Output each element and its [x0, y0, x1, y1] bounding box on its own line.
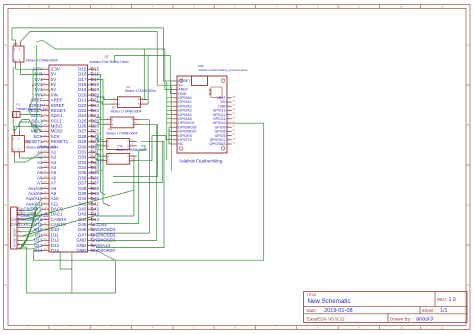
wire rail x36 [35, 45, 37, 120]
U2 pins [17, 210, 22, 249]
P2 pin names [112, 119, 133, 127]
svg-text:Adafruit FeatherWing: Adafruit FeatherWing [179, 158, 223, 163]
wire M32 GPIO10 to bottom loop [116, 123, 264, 260]
svg-text:Molex 172448-0004: Molex 172448-0004 [111, 110, 142, 114]
P9 pin numbers [103, 140, 133, 147]
wire bottom diagonal from U7 GND label [96, 250, 115, 260]
wire P6 top pins [15, 126, 42, 130]
connector M1 Molex 172448-0004 body [13, 46, 24, 62]
M32 left pin stubs [172, 81, 177, 144]
wire P6 top pin2 [20, 122, 42, 132]
U7 right pin numbers [90, 68, 93, 252]
connector P10 Molex 172448-0004 body [107, 153, 130, 164]
wire junction drop to P1 [30, 69, 33, 114]
M32 left pin names [178, 79, 196, 146]
M32 usb connector outline [192, 76, 208, 86]
svg-text:NC: NC [178, 142, 184, 146]
M32 right pin names [209, 96, 226, 146]
U7 left pin stubs [42, 69, 50, 251]
svg-text:Molex 172448-0004: Molex 172448-0004 [26, 59, 58, 63]
wire trunk T1 to M32 RESET [12, 28, 172, 81]
wire long diagonal across U7 [22, 190, 134, 220]
wire U7 to P4 pin1 [96, 97, 111, 100]
wire P4 right pin1 riser to trunk [144, 49, 147, 100]
svg-text:D14: D14 [51, 248, 60, 253]
svg-text:New Schematic: New Schematic [308, 298, 351, 305]
wire nested N4 from P9 to U7 bottom [96, 146, 145, 224]
wire nested N2 from P2 to U7 bottom [96, 124, 157, 240]
svg-text:REV:: REV: [437, 297, 447, 302]
svg-text:TITLE:: TITLE: [307, 293, 318, 297]
wire long diagonal across U7 lower [22, 216, 96, 237]
wire U7 to P2 pin2 [96, 123, 104, 125]
svg-text:P1: P1 [17, 103, 21, 107]
wire P10 right to M32 lower rows [137, 136, 169, 161]
op-amp U7 Arduino Due Shield Clean body [49, 65, 88, 252]
svg-text:GY-86 10DOF: GY-86 10DOF [12, 228, 16, 247]
svg-text:Arduino Due Shield Clean: Arduino Due Shield Clean [90, 60, 129, 64]
wire bottom big loop left [22, 247, 116, 293]
svg-text:Adafruit FeatherWing_pericurim: Adafruit FeatherWing_pericurimouse [199, 68, 248, 72]
P1 pin [20, 114, 24, 116]
wire nested N5 from P10 to U7 bottom [96, 156, 137, 216]
svg-text:B: B [467, 123, 469, 127]
connector P9 Molex 172448-0004 body [107, 139, 130, 150]
svg-text:Molex 172448-0004: Molex 172448-0004 [107, 132, 138, 136]
wire P6 bottom pin2 [20, 157, 42, 158]
M32 mounting holes [179, 79, 224, 150]
U7 left net labels [10, 67, 43, 254]
wire U7 to P9 pin2 [96, 144, 100, 146]
svg-text:anasr3: anasr3 [416, 317, 433, 323]
wire U7 mid to vertical 157 [113, 124, 157, 176]
U7 left inside pin names [51, 67, 69, 254]
M32 right pin stubs [227, 98, 232, 144]
title block frame [304, 292, 468, 323]
P2 pin numbers [107, 118, 137, 125]
connector P4 Molex 172448-0004 body [118, 97, 141, 108]
svg-text:A: A [4, 43, 6, 47]
wire U2 bold curve 1 [21, 207, 37, 246]
wire U7 to P10 pin2 [96, 159, 100, 161]
wire nested N3 from P2 to U7 bottom [96, 120, 149, 233]
P2 pins [104, 120, 141, 125]
wire P4 right pin2 riser to trunk [147, 56, 150, 105]
svg-text:B: B [4, 123, 6, 127]
M1 pins [16, 42, 21, 67]
P4 pin numbers [114, 98, 144, 105]
wire trunk T3 to M32 AREF [36, 40, 172, 89]
wire M1 pin4 to U7 5V [21, 67, 42, 75]
P10 pin names [108, 155, 129, 163]
wire trunk T4 to M32 GND [115, 56, 173, 94]
wire staircase U7 right to mid verticals [95, 134, 103, 170]
module M32 Adafruit FeatherWing body [177, 76, 227, 153]
wire P1 to U7 [24, 114, 42, 116]
wire U7 to P4 pin2 [96, 102, 111, 104]
M32 battery connector outline [209, 87, 222, 98]
svg-text:U7: U7 [105, 55, 109, 59]
M32 right pin numbers [233, 96, 236, 144]
svg-text:Sheet:: Sheet: [422, 308, 435, 313]
wire bottom loop from U7 bottom-left [33, 251, 115, 261]
P10 pin numbers [103, 154, 133, 161]
wire U7 right D17 riser B [95, 80, 110, 206]
P10 pins [100, 156, 137, 161]
wire U2 fan-out [22, 200, 42, 249]
connector P2 Molex 172448-0004 body [111, 117, 134, 128]
P6 pin names [13, 138, 20, 152]
P6 pins [15, 131, 20, 157]
wire left rail M1 to P6 [13, 67, 14, 131]
P9 pins [100, 141, 137, 146]
U7 right net labels [91, 67, 116, 254]
U7 left pin numbers [44, 68, 47, 252]
wire U7 to P10 pin1 [96, 154, 100, 156]
svg-text:U2: U2 [20, 209, 24, 213]
wire nested N1 from P9 to U7 bottom [96, 141, 164, 247]
wire U7 to P2 pin1 [96, 118, 104, 120]
wire U7 to P9 pin1 [96, 139, 100, 142]
svg-text:Header Molex NC 1x2: Header Molex NC 1x2 [17, 107, 49, 111]
svg-text:1/1: 1/1 [440, 308, 448, 314]
wire bottom drop x72 [71, 252, 73, 293]
wire U7 right D16 riser A [95, 74, 106, 195]
svg-text:GPIOSDA: GPIOSDA [209, 142, 226, 146]
P9 pin names [108, 140, 129, 148]
svg-text:A: A [467, 43, 469, 47]
wire U2 bold curve 2 [19, 213, 35, 249]
U7 right pin stubs [88, 69, 96, 251]
U7 right inside pin names [76, 67, 87, 254]
svg-text:Date:: Date: [307, 308, 318, 313]
P1 body [13, 112, 21, 118]
M32 left pin numbers [169, 80, 172, 145]
IC U2 10-dof stick body [11, 207, 18, 249]
svg-text:2019-01-08: 2019-01-08 [324, 308, 353, 314]
svg-text:P6: P6 [26, 141, 30, 145]
wire M32 GPIO rows left vertical A [167, 82, 173, 171]
P4 pins [111, 100, 148, 105]
wire P6 bottom pin diagonal [15, 152, 42, 162]
wire trunk T2 to M32 3V [21, 31, 173, 85]
svg-text:1.0: 1.0 [449, 297, 456, 303]
svg-text:GND/IOREF: GND/IOREF [91, 248, 116, 253]
P4 pin names [119, 99, 140, 107]
U2 pin numbers [18, 209, 21, 250]
wire tent below P1 [14, 120, 37, 134]
svg-text:EasyEDA V5.9.22: EasyEDA V5.9.22 [307, 317, 345, 323]
wire M1 pin3 to U7 3.3V [16, 67, 42, 70]
svg-text:Drawn By:: Drawn By: [390, 317, 411, 322]
svg-text:Molex 172448-0004: Molex 172448-0004 [26, 145, 58, 149]
M1 pin names [14, 48, 21, 62]
wire U7 mid to vertical 162 [113, 141, 162, 182]
wire bottom small loop x60 [60, 252, 72, 269]
wire P4 right to M32 via 166 [147, 99, 149, 101]
connector P6 Molex 172448-0004 body [12, 136, 24, 152]
svg-text:Molex 172448-0004: Molex 172448-0004 [125, 89, 156, 93]
junction node at 3.3V rail [32, 84, 34, 86]
svg-text:GND: GND [76, 248, 87, 253]
